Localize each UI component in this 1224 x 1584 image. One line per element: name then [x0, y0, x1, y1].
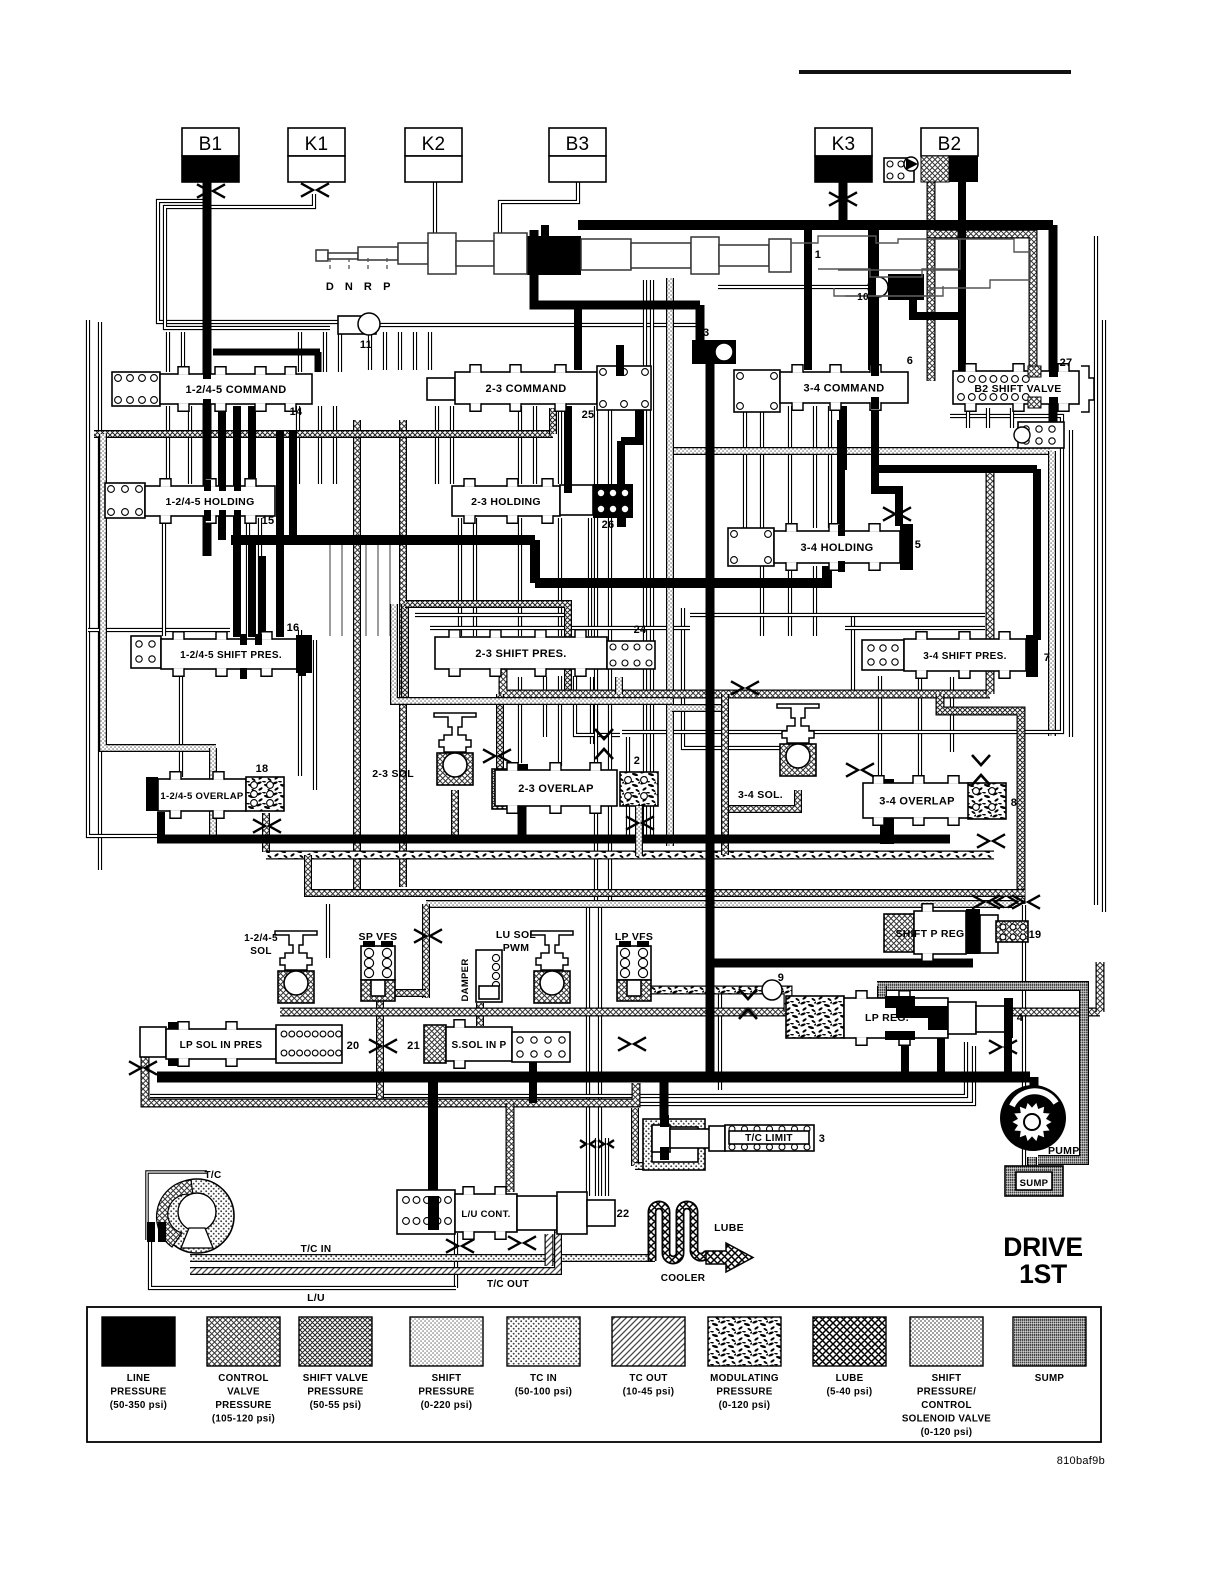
svg-text:SOLENOID VALVE: SOLENOID VALVE	[902, 1414, 991, 1425]
svg-text:18: 18	[256, 763, 269, 775]
svg-text:B3: B3	[566, 134, 590, 155]
svg-text:(0-220 psi): (0-220 psi)	[421, 1400, 473, 1411]
svg-text:4: 4	[1017, 1012, 1024, 1024]
svg-text:VALVE: VALVE	[227, 1387, 260, 1398]
svg-text:1-2/4-5 HOLDING: 1-2/4-5 HOLDING	[165, 496, 254, 508]
svg-text:27: 27	[1060, 357, 1073, 369]
svg-text:1ST: 1ST	[1019, 1259, 1067, 1289]
svg-text:26: 26	[602, 519, 615, 531]
svg-text:3-4 OVERLAP: 3-4 OVERLAP	[879, 796, 954, 808]
svg-text:2: 2	[634, 755, 640, 767]
svg-text:TC IN: TC IN	[530, 1373, 557, 1384]
svg-text:SP VFS: SP VFS	[359, 931, 398, 943]
svg-text:SUMP: SUMP	[1020, 1178, 1049, 1189]
svg-text:5: 5	[915, 539, 921, 551]
svg-text:SHIFT: SHIFT	[432, 1373, 462, 1384]
svg-text:SHIFT: SHIFT	[932, 1373, 962, 1384]
svg-text:B2 SHIFT VALVE: B2 SHIFT VALVE	[974, 383, 1061, 395]
svg-text:(50-100 psi): (50-100 psi)	[515, 1387, 573, 1398]
svg-text:21: 21	[407, 1040, 420, 1052]
svg-text:(10-45 psi): (10-45 psi)	[623, 1387, 675, 1398]
svg-text:PRESSURE: PRESSURE	[307, 1387, 363, 1398]
svg-text:LP SOL IN PRES: LP SOL IN PRES	[180, 1040, 263, 1051]
svg-text:K2: K2	[422, 134, 446, 155]
svg-text:L/U: L/U	[307, 1292, 325, 1304]
svg-text:PRESSURE/: PRESSURE/	[917, 1387, 976, 1398]
svg-text:MODULATING: MODULATING	[710, 1373, 779, 1384]
svg-text:2-3 OVERLAP: 2-3 OVERLAP	[518, 783, 593, 795]
svg-text:1-2/4-5 COMMAND: 1-2/4-5 COMMAND	[185, 384, 286, 396]
svg-text:TC OUT: TC OUT	[629, 1373, 667, 1384]
svg-text:K3: K3	[832, 134, 856, 155]
svg-text:2-3 SHIFT PRES.: 2-3 SHIFT PRES.	[475, 648, 566, 660]
svg-text:DRIVE: DRIVE	[1003, 1232, 1083, 1262]
svg-text:T/C IN: T/C IN	[301, 1244, 332, 1255]
svg-text:T/C LIMIT: T/C LIMIT	[745, 1133, 793, 1144]
svg-text:B2: B2	[938, 134, 962, 155]
svg-text:2-3 HOLDING: 2-3 HOLDING	[471, 496, 541, 508]
svg-text:(50-350 psi): (50-350 psi)	[110, 1400, 168, 1411]
svg-text:N: N	[345, 281, 353, 293]
svg-text:SUMP: SUMP	[1035, 1373, 1065, 1384]
svg-text:CONTROL: CONTROL	[921, 1400, 972, 1411]
svg-text:3-4 COMMAND: 3-4 COMMAND	[804, 383, 885, 395]
svg-text:10: 10	[857, 292, 869, 303]
svg-text:15: 15	[262, 515, 275, 527]
svg-text:R: R	[364, 281, 372, 293]
svg-text:B1: B1	[199, 134, 223, 155]
svg-text:6: 6	[907, 355, 913, 367]
svg-text:11: 11	[360, 339, 372, 351]
svg-text:LP VFS: LP VFS	[615, 931, 653, 943]
svg-text:(0-120 psi): (0-120 psi)	[719, 1400, 771, 1411]
svg-text:3-4 HOLDING: 3-4 HOLDING	[801, 542, 874, 554]
svg-text:LINE: LINE	[127, 1373, 151, 1384]
svg-text:PRESSURE: PRESSURE	[215, 1400, 271, 1411]
svg-text:SOL: SOL	[250, 946, 271, 957]
svg-text:LUBE: LUBE	[714, 1222, 744, 1234]
svg-text:9: 9	[778, 972, 784, 984]
svg-text:16: 16	[287, 622, 300, 634]
svg-text:PUMP: PUMP	[1048, 1145, 1080, 1157]
svg-text:SHIFT VALVE: SHIFT VALVE	[303, 1373, 369, 1384]
svg-text:CONTROL: CONTROL	[218, 1373, 269, 1384]
svg-text:S.SOL IN P: S.SOL IN P	[451, 1040, 506, 1051]
svg-text:(105-120 psi): (105-120 psi)	[212, 1414, 275, 1425]
svg-text:7: 7	[1044, 652, 1050, 664]
svg-text:20: 20	[347, 1040, 360, 1052]
svg-text:PRESSURE: PRESSURE	[110, 1387, 166, 1398]
svg-text:LU SOL: LU SOL	[496, 929, 537, 941]
svg-text:D: D	[326, 281, 334, 293]
svg-text:22: 22	[617, 1208, 630, 1220]
svg-text:T/C: T/C	[204, 1170, 221, 1181]
svg-text:COOLER: COOLER	[661, 1273, 706, 1284]
svg-text:1-2/4-5: 1-2/4-5	[244, 933, 278, 944]
svg-text:13: 13	[697, 327, 710, 339]
svg-text:3-4 SOL.: 3-4 SOL.	[738, 789, 783, 801]
svg-text:PRESSURE: PRESSURE	[716, 1387, 772, 1398]
svg-text:25: 25	[582, 409, 595, 421]
svg-text:SHIFT P REG: SHIFT P REG	[895, 928, 964, 940]
svg-text:L/U CONT.: L/U CONT.	[461, 1209, 510, 1220]
svg-text:810baf9b: 810baf9b	[1057, 1455, 1105, 1467]
svg-text:3: 3	[819, 1133, 825, 1145]
svg-text:T/C OUT: T/C OUT	[487, 1279, 529, 1290]
svg-text:PRESSURE: PRESSURE	[418, 1387, 474, 1398]
svg-text:P: P	[383, 281, 391, 293]
svg-text:1-2/4-5 SHIFT PRES.: 1-2/4-5 SHIFT PRES.	[180, 650, 282, 661]
svg-text:1-2/4-5 OVERLAP: 1-2/4-5 OVERLAP	[160, 791, 244, 802]
svg-text:(0-120 psi): (0-120 psi)	[921, 1427, 973, 1438]
svg-text:LUBE: LUBE	[836, 1373, 864, 1384]
svg-text:24: 24	[634, 624, 647, 636]
svg-text:2-3 COMMAND: 2-3 COMMAND	[486, 383, 567, 395]
svg-text:14: 14	[290, 406, 303, 418]
svg-text:8: 8	[1011, 797, 1017, 809]
svg-text:K1: K1	[305, 134, 329, 155]
svg-text:19: 19	[1029, 929, 1042, 941]
svg-text:PWM: PWM	[503, 942, 530, 954]
svg-text:2-3 SOL: 2-3 SOL	[372, 768, 414, 780]
svg-text:(5-40 psi): (5-40 psi)	[826, 1387, 872, 1398]
svg-text:(50-55 psi): (50-55 psi)	[310, 1400, 362, 1411]
svg-text:3-4 SHIFT PRES.: 3-4 SHIFT PRES.	[923, 651, 1006, 662]
svg-text:DAMPER: DAMPER	[460, 959, 471, 1002]
svg-text:1: 1	[815, 249, 821, 261]
